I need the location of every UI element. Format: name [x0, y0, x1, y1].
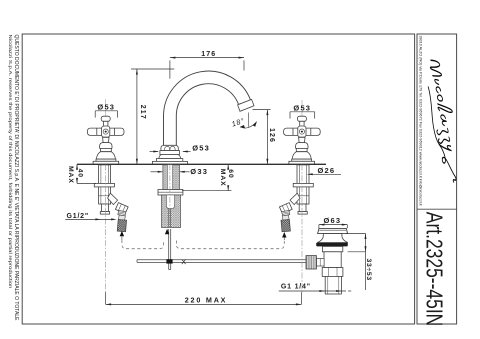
drain flange band: [316, 243, 348, 247]
dimension 126: [253, 110, 271, 165]
spout aerator tip: [238, 99, 254, 111]
right valve shank below deck: [279, 165, 313, 232]
Nicolazzi signature logo: [422, 58, 465, 184]
supply arrow left hose: [120, 231, 124, 237]
left elbow to hose: [108, 193, 118, 204]
title block box right: [417, 34, 457, 324]
svg-text:Art.2325--45IN: Art.2325--45IN: [421, 212, 447, 326]
rod clamp X: [182, 259, 186, 264]
spout shank flange nut: [158, 190, 183, 196]
right hose neck: [282, 215, 289, 220]
left hose hex nut: [115, 203, 128, 214]
left handle hub: [102, 126, 110, 137]
dimension O53 left: [95, 111, 117, 118]
dimension 176: [170, 58, 244, 79]
svg-text:Ø53: Ø53: [293, 103, 311, 112]
left valve body above deck: [87, 116, 124, 164]
center line left valve: [105, 99, 107, 164]
supply arrow right hose: [282, 232, 286, 238]
svg-text:MAX: MAX: [219, 169, 226, 187]
svg-text:217: 217: [139, 105, 146, 120]
svg-text:MAX: MAX: [67, 166, 74, 184]
supply dashed route left: [122, 240, 163, 249]
drain bell: [317, 234, 347, 243]
pop-up rod horizontal: [137, 260, 306, 263]
svg-text:Ø53: Ø53: [192, 143, 210, 152]
dimension 33-53: [346, 234, 366, 291]
svg-text:Ø63: Ø63: [324, 216, 342, 225]
supply arrow spout: [165, 229, 169, 235]
center line right valve: [301, 100, 303, 164]
drain pop-up assembly: [306, 228, 348, 294]
main drawing frame: [22, 34, 414, 324]
pop-up rod vertical: [169, 229, 171, 270]
svg-text:220 MAX: 220 MAX: [185, 296, 228, 305]
dimension 217: [131, 69, 174, 164]
drain hex: [322, 268, 343, 277]
spout threaded shank lower: [162, 195, 181, 228]
left hose collar: [118, 210, 126, 216]
dimension O33: [151, 171, 190, 173]
spout base collar: [152, 145, 187, 164]
svg-text:G1/2": G1/2": [67, 213, 90, 220]
left hose neck: [119, 215, 126, 220]
countertop deck line: [77, 163, 326, 165]
dimension 220 MAX: [106, 292, 302, 304]
drain upper ring: [322, 246, 342, 251]
drain knurled nut: [306, 256, 316, 269]
center line spout: [169, 117, 171, 164]
dimension 60 MAX: [182, 164, 232, 191]
left valve shank below deck: [94, 165, 114, 214]
left braided hose: [117, 219, 126, 231]
title block divider: [417, 208, 457, 210]
spout tube arc: [164, 71, 251, 145]
right hose collar: [282, 210, 290, 216]
right valve body above deck: [284, 116, 321, 164]
right shank nut: [293, 183, 313, 187]
right hose hex nut: [279, 203, 292, 214]
spout threaded shank upper: [163, 165, 180, 190]
drain rod entry pipe: [316, 258, 324, 266]
svg-text:60: 60: [227, 169, 234, 178]
svg-text:G1 1/4": G1 1/4": [281, 284, 311, 291]
svg-text:Ø26: Ø26: [318, 166, 336, 175]
dimension 40 MAX: [77, 164, 96, 183]
left valve bonnet: [100, 143, 112, 149]
svg-text:126: 126: [268, 128, 275, 143]
left valve stem: [103, 137, 109, 142]
svg-text:40: 40: [77, 169, 84, 178]
drain plug dome: [318, 228, 348, 233]
svg-text:33÷53: 33÷53: [365, 259, 372, 281]
rod junction block: [166, 259, 172, 263]
left shank tail G1/2: [102, 204, 109, 212]
left valve bell: [96, 152, 115, 159]
left handle cross: [87, 128, 124, 135]
left shank nut: [94, 183, 114, 187]
dimension O53 spout base: [150, 151, 191, 153]
dimension O26: [308, 173, 342, 175]
svg-text:Ø53: Ø53: [97, 102, 115, 111]
right braided hose: [281, 219, 290, 231]
svg-text:Ø33: Ø33: [190, 167, 208, 176]
dimension O53 right: [290, 112, 315, 119]
supply dashed route right: [176, 240, 284, 249]
below-deck center lines: [106, 165, 302, 293]
drain body: [324, 252, 341, 268]
right elbow: [290, 193, 300, 204]
svg-text:176: 176: [201, 51, 216, 58]
svg-text:Nicolazzi S.p.A. reserves the: Nicolazzi S.p.A. reserves the property o…: [8, 35, 13, 290]
svg-text:28010 ALZO (NO) via P.Durio 17: 28010 ALZO (NO) via P.Durio 179 Tel. 032…: [418, 36, 422, 206]
dimension O63: [319, 225, 347, 229]
drain tailpipe G1 1/4: [325, 276, 341, 294]
